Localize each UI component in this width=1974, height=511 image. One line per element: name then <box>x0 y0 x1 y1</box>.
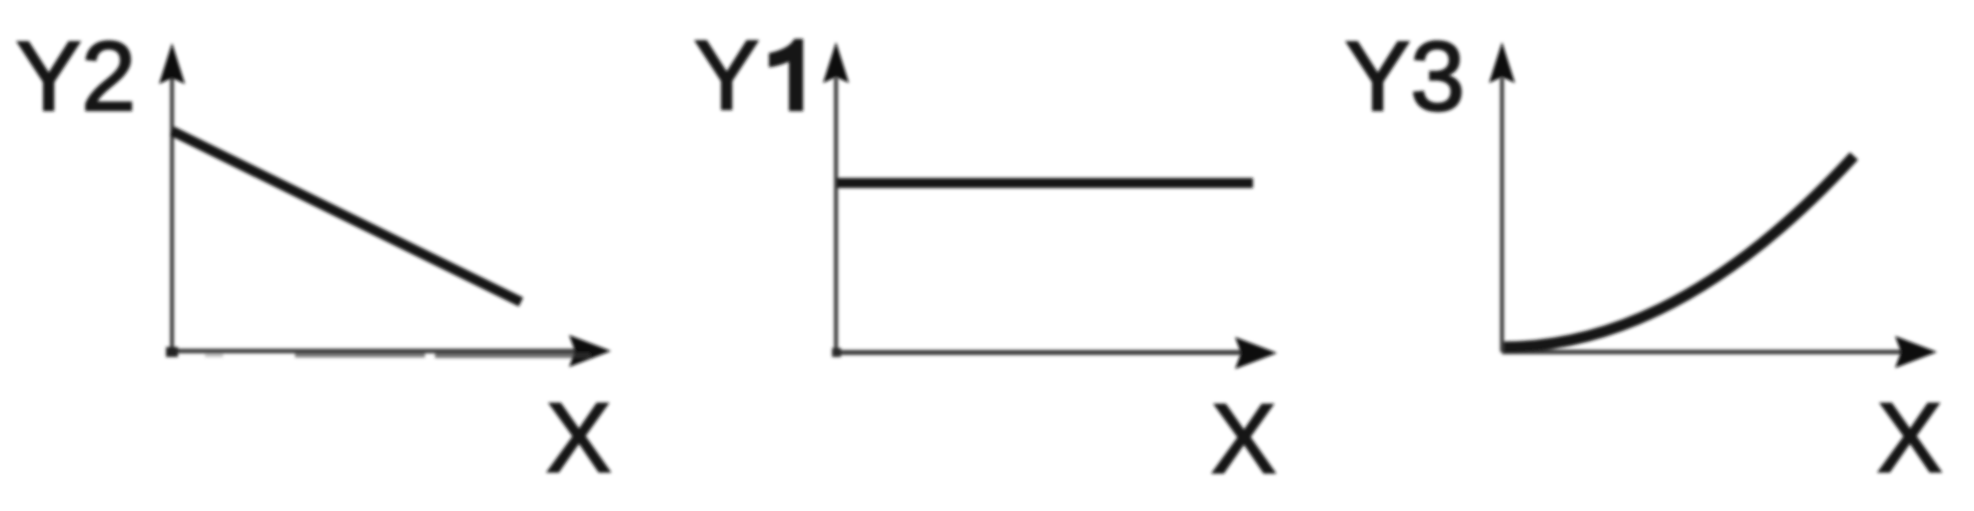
right graph horizontal X axis <box>1502 350 1902 355</box>
scan noise under left X axis <box>295 353 425 358</box>
svg-text:X: X <box>1211 384 1276 494</box>
left graph vertical axis arrowhead <box>159 43 185 84</box>
svg-text:Y2: Y2 <box>16 21 136 131</box>
middle graph horizontal axis arrowhead <box>1235 337 1277 369</box>
middle graph vertical axis arrowhead <box>823 42 849 83</box>
left graph origin corner blob <box>166 347 178 357</box>
right graph vertical axis arrowhead <box>1489 42 1515 83</box>
middle graph origin corner blob <box>832 348 841 357</box>
middle graph horizontal X axis <box>836 350 1242 355</box>
left graph horizontal X axis <box>170 349 575 354</box>
svg-text:Y3: Y3 <box>1345 21 1465 131</box>
middle graph vertical axis (Y1) <box>834 78 838 353</box>
left graph horizontal axis arrowhead <box>569 335 611 367</box>
left graph data line: decreasing Y2 vs X <box>172 131 521 302</box>
svg-text:Y: Y <box>694 20 759 130</box>
svg-text:X: X <box>546 383 611 493</box>
label Y1 (middle graph): digit 1 (no-foot Arial style) <box>770 40 802 110</box>
right graph vertical axis (Y3) <box>1500 78 1504 352</box>
middle graph data line: constant Y1 vs X <box>837 178 1253 188</box>
svg-text:X: X <box>1877 383 1942 493</box>
right graph horizontal axis arrowhead <box>1895 336 1937 368</box>
right graph data curve: increasing Y3 vs X (parabolic) <box>1504 156 1854 347</box>
left graph vertical axis (Y2) <box>170 78 174 351</box>
